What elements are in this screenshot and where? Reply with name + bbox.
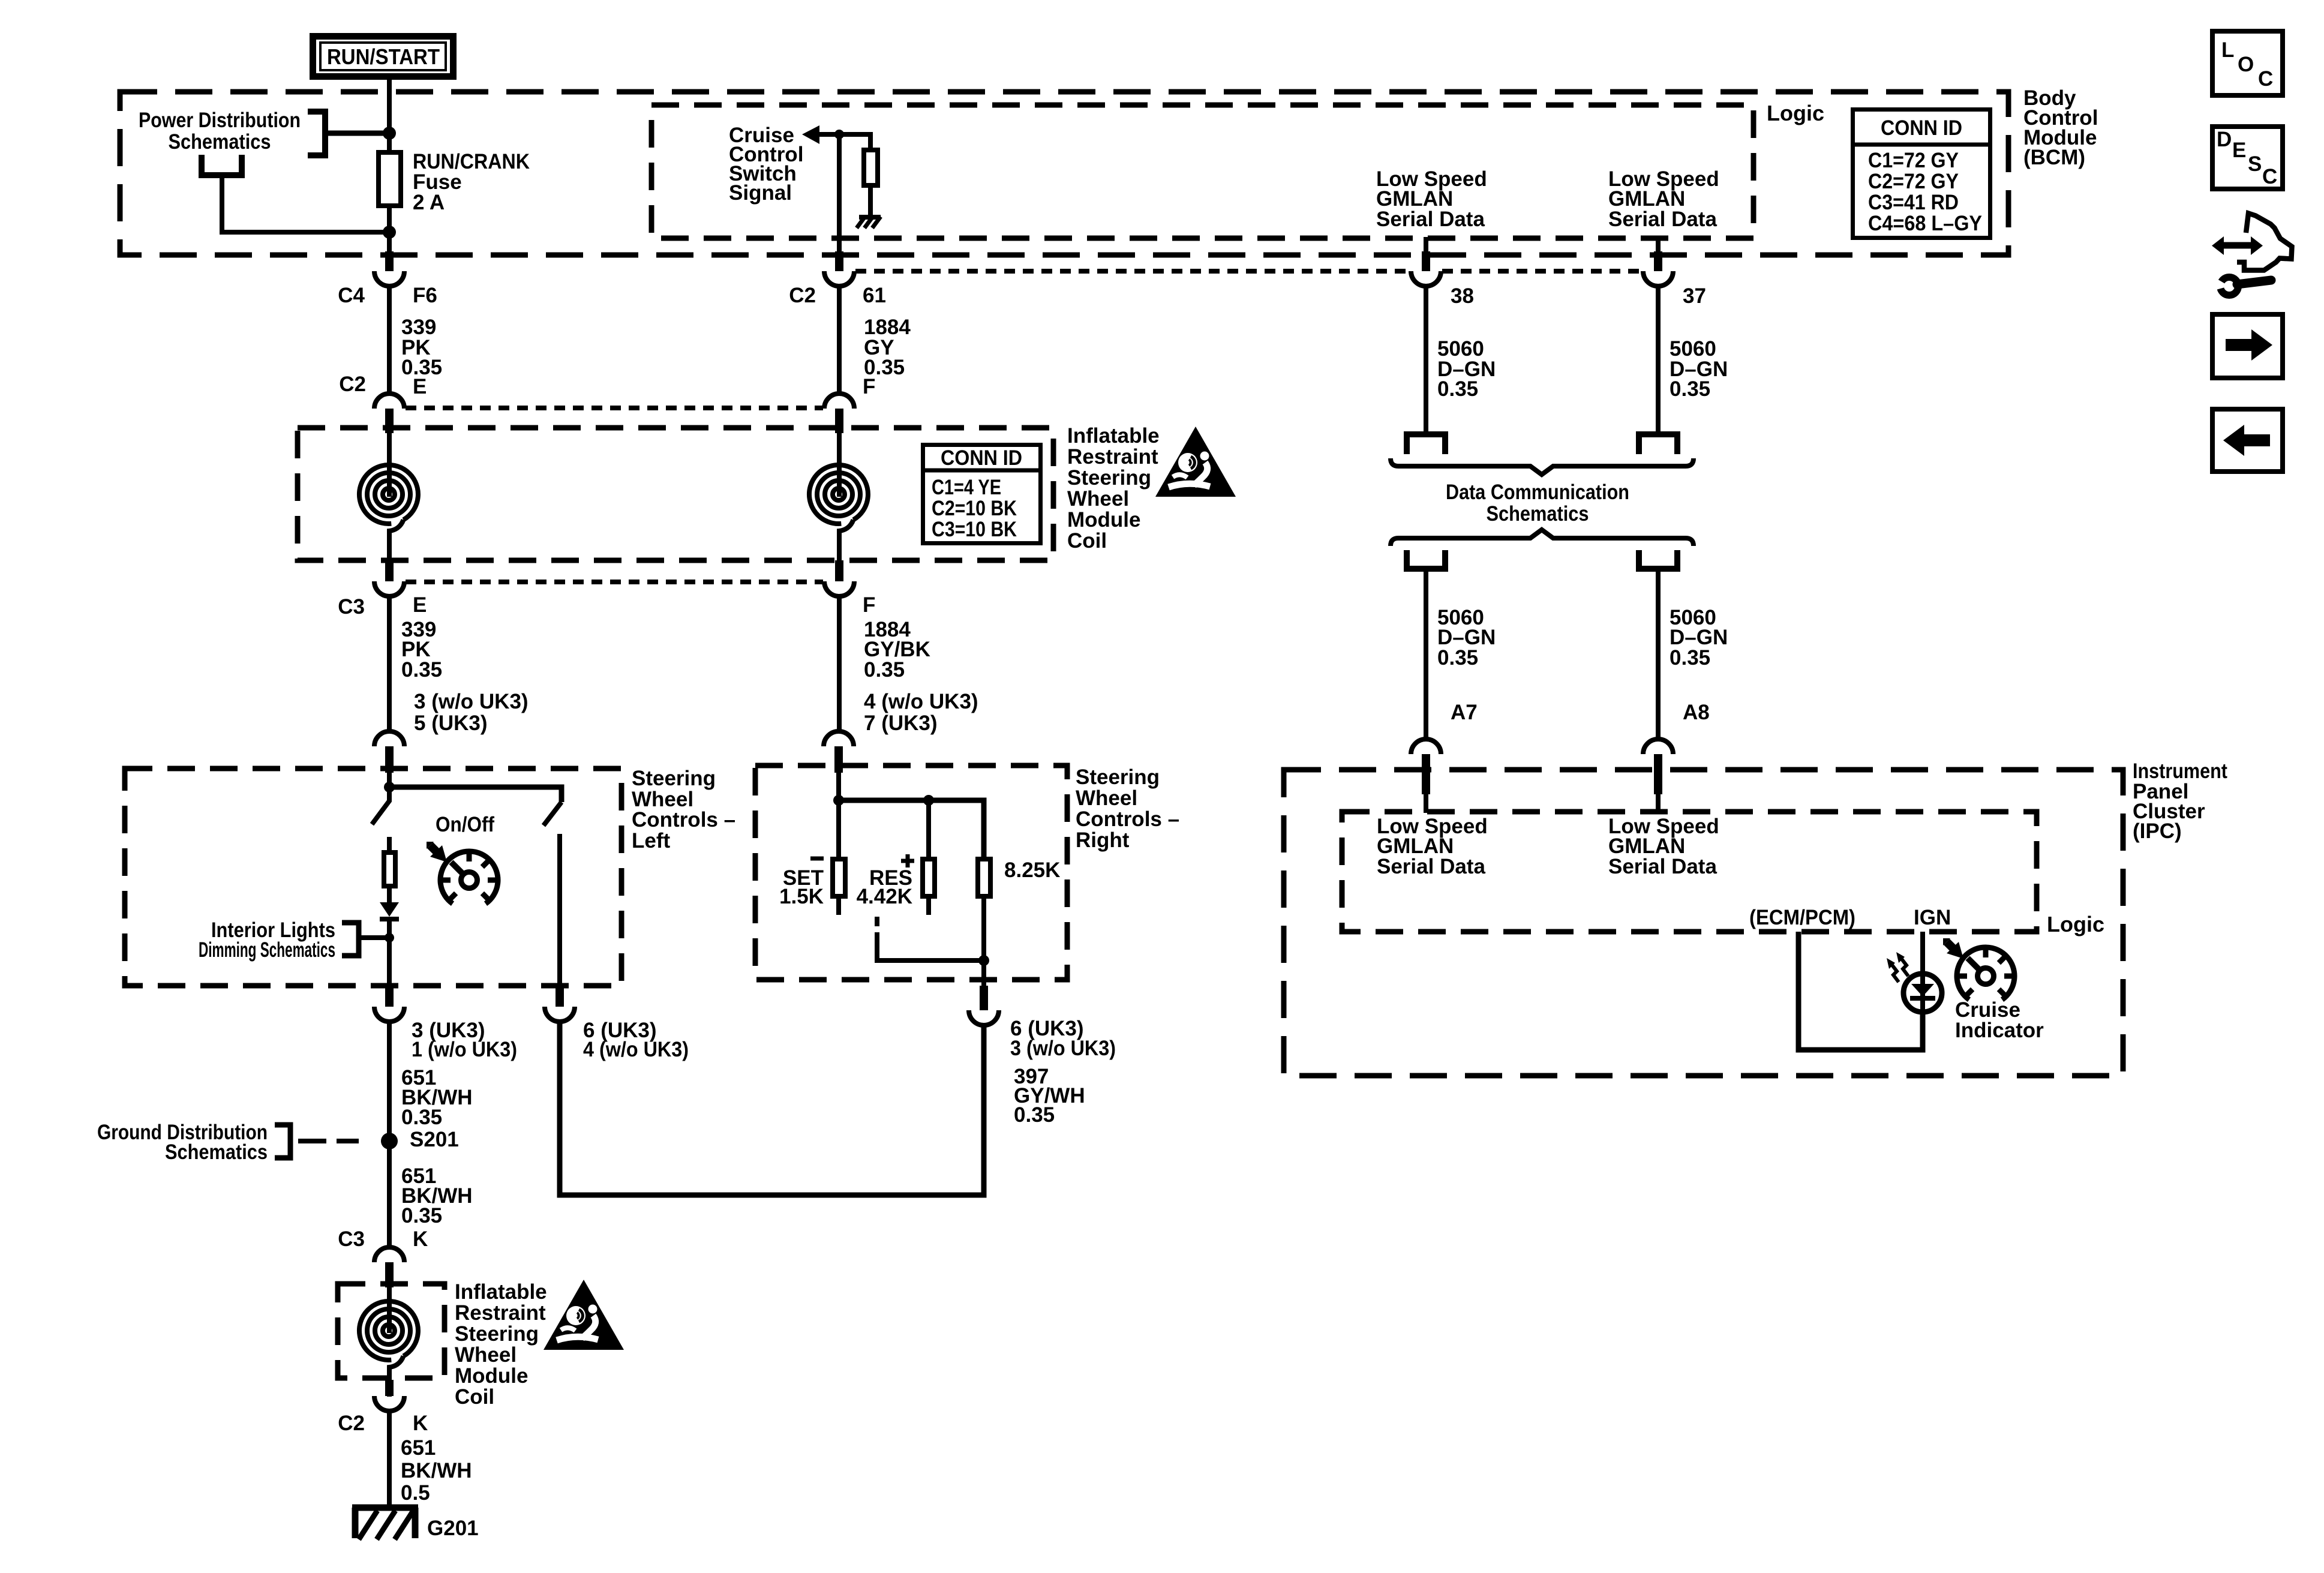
wire bracket to node <box>361 935 390 940</box>
resistor RES 4.42K <box>923 859 935 896</box>
svg-text:K: K <box>413 1227 428 1251</box>
gauge icon On/Off <box>440 851 498 903</box>
wire 339 PK <box>387 286 392 395</box>
svg-text:E: E <box>413 375 427 398</box>
svg-text:Module: Module <box>1067 508 1140 532</box>
coil column2 <box>809 431 868 560</box>
svg-text:Wheel: Wheel <box>1076 786 1137 810</box>
wire col3 to IPC <box>1424 569 1428 740</box>
wire 397 to left branch <box>560 1022 984 1195</box>
off-page staple col4 lower <box>1639 550 1677 569</box>
RUN/START power feed box <box>313 37 454 77</box>
svg-text:Right: Right <box>1076 828 1130 852</box>
connector A8 <box>1643 739 1673 754</box>
svg-text:0.35: 0.35 <box>401 1106 442 1129</box>
svg-text:0.35: 0.35 <box>401 1204 442 1227</box>
actuator arrow IPC <box>1943 938 1963 959</box>
svg-text:BK/WH: BK/WH <box>401 1459 472 1482</box>
off-page staple col3 <box>1407 434 1445 454</box>
switch On/Off blade <box>372 787 389 824</box>
switch blade right <box>544 802 562 825</box>
wire 651 BK/WH col1 <box>387 1022 392 1248</box>
svg-text:C3=41 RD: C3=41 RD <box>1868 191 1959 214</box>
connector C3 pin E <box>385 560 394 581</box>
resistor 8.25K <box>978 859 990 896</box>
svg-text:0.35: 0.35 <box>1670 646 1710 670</box>
svg-text:Logic: Logic <box>2047 912 2104 936</box>
label Low Speed GMLAN Serial Data (BCM col4) <box>1608 167 1719 231</box>
icon LOC box <box>2212 31 2283 95</box>
warning triangle airbag lower <box>544 1280 624 1350</box>
svg-text:Steering: Steering <box>1067 466 1151 490</box>
label Steering Wheel Controls - Left <box>632 767 735 852</box>
CONN ID table (coil) <box>921 445 1043 544</box>
label Instrument Panel Cluster (IPC) <box>2133 760 2227 843</box>
svg-text:37: 37 <box>1683 284 1706 308</box>
svg-text:C2=72 GY: C2=72 GY <box>1868 170 1959 193</box>
svg-text:F: F <box>863 593 875 617</box>
wire resistor to ground <box>868 185 873 215</box>
svg-text:Serial Data: Serial Data <box>1377 855 1485 878</box>
svg-text:E: E <box>2232 139 2246 162</box>
off-page staple col4 <box>1639 434 1677 454</box>
icon DESC box <box>2212 127 2283 189</box>
dotted connector plane line <box>406 406 823 410</box>
connector pin 37 <box>1656 237 1661 253</box>
actuator arrow to gauge <box>427 842 447 862</box>
IPC outer dashed box <box>1284 770 2123 1076</box>
svg-text:Steering: Steering <box>632 767 716 790</box>
BCM inner Logic dashed box <box>651 105 1753 238</box>
svg-text:4 (w/o UK3): 4 (w/o UK3) <box>583 1038 689 1061</box>
arrow cruise signal output <box>802 125 819 144</box>
svg-text:A8: A8 <box>1683 701 1710 724</box>
label Body Control Module (BCM) <box>2023 86 2098 169</box>
svg-text:C1=4 YE: C1=4 YE <box>932 476 1001 499</box>
wire to SET resistor <box>836 800 841 857</box>
wire resistor to diode <box>387 886 392 903</box>
brace lower <box>1391 530 1694 546</box>
dashed leader to S201 <box>298 1139 359 1143</box>
svg-text:651: 651 <box>401 1436 436 1460</box>
wire switch bus left <box>389 787 562 802</box>
svg-text:38: 38 <box>1451 284 1474 308</box>
reference staple symbol <box>202 155 242 175</box>
connector C4 pin F6 <box>385 251 394 271</box>
svg-text:0.35: 0.35 <box>401 658 442 682</box>
svg-text:C3: C3 <box>338 1227 365 1251</box>
connector SWC-L pin 3/1 <box>385 986 394 1007</box>
node junction dot <box>978 955 989 966</box>
svg-text:Inflatable: Inflatable <box>455 1280 547 1304</box>
svg-text:Schematics: Schematics <box>165 1140 268 1164</box>
IR coil small dashed box <box>338 1284 445 1378</box>
svg-text:C1=72 GY: C1=72 GY <box>1868 149 1959 172</box>
svg-text:Restraint: Restraint <box>1067 445 1158 469</box>
svg-text:L: L <box>2221 38 2234 62</box>
svg-text:7 (UK3): 7 (UK3) <box>864 712 938 735</box>
ground chassis symbol <box>859 215 881 220</box>
svg-text:0.5: 0.5 <box>401 1481 430 1505</box>
connector C2 pin 61 <box>835 251 843 271</box>
svg-text:Power Distribution: Power Distribution <box>139 109 301 132</box>
coil column1 <box>359 431 418 560</box>
wire 1884 GY <box>837 286 842 395</box>
connector C3 pin F <box>835 560 843 581</box>
wire staple to lower node <box>222 175 389 232</box>
BCM outer dashed box <box>120 92 2008 255</box>
label Steering Wheel Controls - Right <box>1076 766 1179 852</box>
gauge icon cruise indicator <box>1957 947 2014 999</box>
wire below On/Off switch <box>387 837 392 852</box>
svg-text:Left: Left <box>632 829 671 852</box>
svg-text:C2: C2 <box>338 1412 365 1435</box>
svg-text:C2=10 BK: C2=10 BK <box>932 497 1017 520</box>
wire RUN/START feed down col1 <box>387 80 392 253</box>
IPC inner Logic dashed box <box>1342 812 2037 932</box>
resistor dimming <box>384 852 395 886</box>
node junction dot <box>383 226 396 239</box>
connector into SWC right <box>824 731 854 746</box>
svg-text:F6: F6 <box>413 284 437 307</box>
svg-text:Steering: Steering <box>1076 766 1160 789</box>
svg-text:Schematics: Schematics <box>1487 502 1589 526</box>
svg-text:Coil: Coil <box>1067 529 1107 553</box>
wire output down <box>981 960 986 987</box>
wire col4 to IPC <box>1656 569 1661 740</box>
svg-text:Indicator: Indicator <box>1955 1019 2044 1042</box>
label Low Speed GMLAN Serial Data (IPC col4) <box>1608 815 1719 878</box>
svg-text:2 A: 2 A <box>413 191 445 214</box>
svg-text:Data Communication: Data Communication <box>1446 481 1629 504</box>
svg-text:G201: G201 <box>427 1517 479 1540</box>
svg-text:Inflatable: Inflatable <box>1067 424 1160 448</box>
dotted connector plane line <box>406 580 823 584</box>
svg-text:5 (UK3): 5 (UK3) <box>414 712 488 735</box>
label minus <box>810 857 824 861</box>
wire to RES resistor <box>926 800 931 857</box>
svg-text:Module: Module <box>455 1364 528 1388</box>
svg-text:Schematics: Schematics <box>169 130 271 154</box>
warning triangle airbag <box>1155 427 1236 497</box>
splice S201 <box>381 1133 398 1149</box>
svg-text:Controls –: Controls – <box>632 808 735 831</box>
svg-text:A7: A7 <box>1451 701 1478 724</box>
svg-text:(BCM): (BCM) <box>2023 146 2085 169</box>
svg-text:E: E <box>413 593 427 617</box>
wire 5060 D-GN col4 <box>1656 286 1661 434</box>
fuse RUN/CRANK 2A <box>379 152 401 206</box>
svg-text:C4=68 L–GY: C4=68 L–GY <box>1868 212 1982 235</box>
node junction dot <box>923 795 934 806</box>
svg-text:Restraint: Restraint <box>455 1301 546 1325</box>
resistor SET 1.5K <box>833 859 845 896</box>
svg-text:C: C <box>2258 67 2273 91</box>
LED cruise indicator <box>1903 972 1942 1014</box>
svg-text:D: D <box>2217 128 2232 151</box>
node junction dot <box>834 130 844 139</box>
label Low Speed GMLAN Serial Data (IPC col3) <box>1377 815 1488 878</box>
diode symbol <box>380 902 399 917</box>
node junction dot <box>385 933 394 942</box>
wire 5060 D-GN col3 <box>1424 286 1428 434</box>
label Inflatable Restraint Steering Wheel Module Coil <box>1067 424 1160 553</box>
wire right branch down <box>557 834 562 987</box>
ground G201 <box>352 1508 479 1540</box>
svg-text:0.35: 0.35 <box>1437 646 1478 670</box>
svg-text:C: C <box>2262 165 2277 188</box>
wire bracket to main feed <box>328 131 389 136</box>
svg-text:CONN ID: CONN ID <box>1881 116 1962 140</box>
dashed stub below RES <box>875 917 879 941</box>
node junction dot <box>384 782 395 792</box>
svg-text:3 (w/o UK3): 3 (w/o UK3) <box>1010 1037 1116 1060</box>
svg-text:RUN/START: RUN/START <box>327 44 440 69</box>
icon diagnostic car with wrench <box>2212 214 2292 296</box>
svg-text:C4: C4 <box>338 284 365 307</box>
svg-text:C3: C3 <box>338 595 365 619</box>
connector into SWC left <box>374 731 404 746</box>
connector A7 <box>1411 739 1441 754</box>
CONN ID table (BCM) <box>1851 110 1992 238</box>
svg-text:0.35: 0.35 <box>1014 1103 1055 1127</box>
wire 339 PK lower <box>387 596 392 733</box>
svg-text:61: 61 <box>863 284 886 307</box>
SWC Right dashed box <box>755 766 1067 980</box>
node junction dot <box>383 127 396 140</box>
SWC Left dashed box <box>125 769 621 986</box>
svg-text:Logic: Logic <box>1767 101 1824 125</box>
svg-text:S: S <box>2248 152 2262 176</box>
svg-text:0.35: 0.35 <box>1437 377 1478 401</box>
svg-text:C2: C2 <box>789 284 816 307</box>
wire ECM/PCM to LED cathode <box>1798 932 1923 1050</box>
resistor pull-up <box>864 150 878 185</box>
svg-text:8.25K: 8.25K <box>1004 858 1060 882</box>
svg-text:3 (w/o UK3): 3 (w/o UK3) <box>414 690 529 713</box>
connector pin 38 <box>1424 237 1428 253</box>
wire arrow to resistor <box>818 134 870 150</box>
svg-text:C3=10 BK: C3=10 BK <box>932 518 1017 541</box>
reference bracket interior lights <box>342 923 359 956</box>
wire 651 BK/WH 0.5 <box>387 1411 392 1506</box>
node junction dot <box>833 795 844 806</box>
svg-text:Serial Data: Serial Data <box>1608 855 1717 878</box>
svg-text:1.5K: 1.5K <box>779 885 824 908</box>
connector SWC-R pin 6/3 <box>980 986 988 1010</box>
reference bracket to Power Distribution <box>308 112 325 155</box>
LED emission arrows <box>1896 952 1908 976</box>
connector C2 pin K <box>385 1380 394 1396</box>
off-page staple col3 lower <box>1407 550 1445 569</box>
label Inflatable Restraint Steering Wheel Module Coil <box>455 1280 547 1409</box>
wire switch bus right <box>839 800 984 857</box>
wire col2 switch signal <box>837 134 842 253</box>
wire diode down <box>387 919 392 987</box>
icon arrow right box <box>2212 314 2283 378</box>
IR coil dashed box <box>298 428 1053 560</box>
svg-text:1 (w/o UK3): 1 (w/o UK3) <box>412 1038 517 1061</box>
wire IGN to LED <box>1920 932 1925 973</box>
reference bracket ground distribution <box>275 1125 290 1158</box>
svg-text:(ECM/PCM): (ECM/PCM) <box>1749 906 1855 929</box>
wire RES link to output <box>877 941 984 960</box>
brace upper <box>1391 458 1694 475</box>
svg-text:F: F <box>863 375 875 398</box>
wire 1884 GY/BK lower <box>837 596 842 733</box>
dotted connector plane line <box>855 269 1642 274</box>
svg-text:On/Off: On/Off <box>436 813 494 836</box>
icon arrow left box <box>2212 409 2283 472</box>
svg-text:S201: S201 <box>410 1128 459 1151</box>
svg-text:0.35: 0.35 <box>864 658 905 682</box>
svg-text:Signal: Signal <box>729 181 792 205</box>
svg-text:Wheel: Wheel <box>455 1343 517 1367</box>
svg-text:Controls –: Controls – <box>1076 807 1179 831</box>
svg-text:C2: C2 <box>339 373 366 396</box>
svg-text:O: O <box>2238 53 2254 76</box>
svg-text:4.42K: 4.42K <box>857 885 912 908</box>
connector SWC-L pin 6/4 <box>556 986 564 1007</box>
svg-text:(IPC): (IPC) <box>2133 819 2182 843</box>
coil column1 lower <box>359 1268 418 1397</box>
label plus <box>901 854 914 867</box>
svg-text:Serial Data: Serial Data <box>1376 208 1485 231</box>
svg-text:4 (w/o UK3): 4 (w/o UK3) <box>864 690 978 713</box>
svg-text:0.35: 0.35 <box>1670 377 1710 401</box>
svg-text:IGN: IGN <box>1914 906 1951 929</box>
svg-text:CONN ID: CONN ID <box>941 446 1022 470</box>
svg-text:Dimming Schematics: Dimming Schematics <box>199 938 335 962</box>
svg-text:Serial Data: Serial Data <box>1608 208 1717 231</box>
label Low Speed GMLAN Serial Data (BCM col3) <box>1376 167 1487 231</box>
svg-text:K: K <box>413 1412 428 1435</box>
svg-text:Steering: Steering <box>455 1322 539 1346</box>
svg-text:Coil: Coil <box>455 1385 494 1409</box>
svg-text:Wheel: Wheel <box>1067 487 1129 511</box>
wire 8.25K down <box>981 896 986 960</box>
